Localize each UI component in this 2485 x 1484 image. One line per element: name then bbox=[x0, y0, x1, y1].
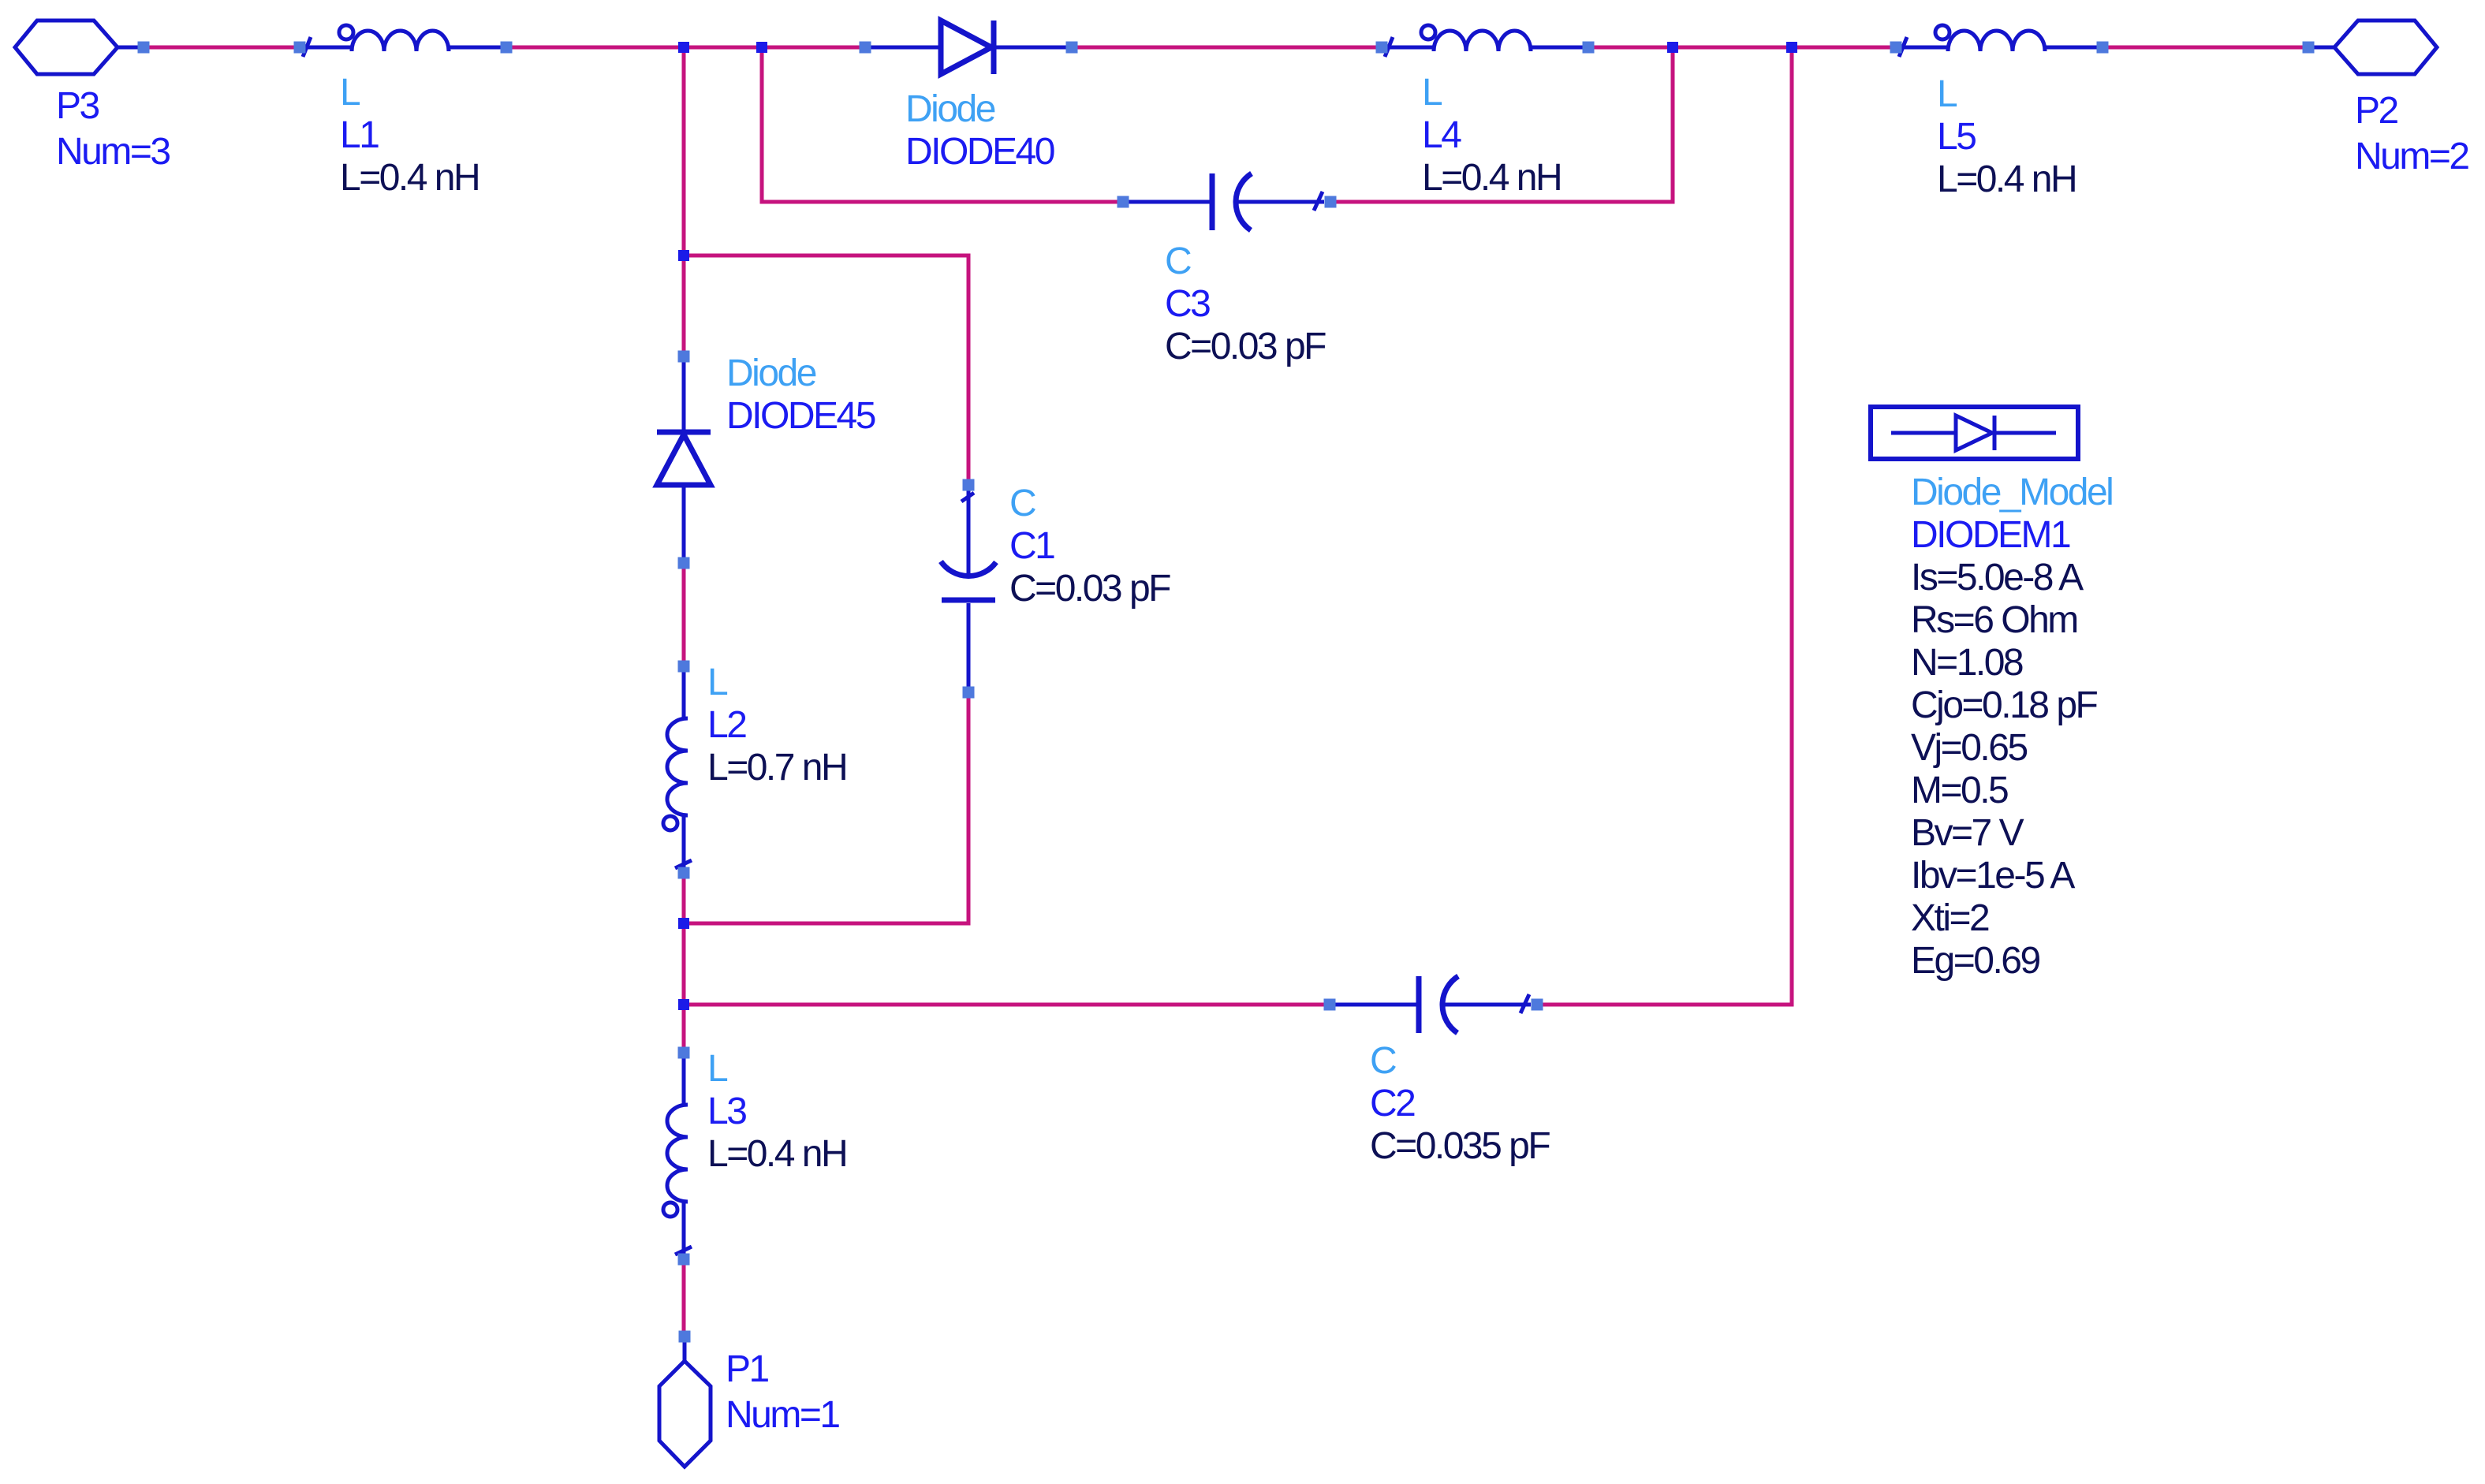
svg-text:C2: C2 bbox=[1370, 1083, 1415, 1124]
wire node F to node G bbox=[682, 928, 686, 1000]
wire from C2 right bbox=[1540, 52, 1792, 1005]
wire from C3 right bbox=[1335, 52, 1673, 202]
node D (junction) bbox=[1786, 42, 1797, 53]
diode model U: Diode_Model DIODEM1 bbox=[1871, 407, 2112, 982]
svg-text:Diode_Model: Diode_Model bbox=[1911, 472, 2112, 513]
node E (junction) bbox=[678, 250, 689, 261]
svg-text:C: C bbox=[1370, 1040, 1396, 1082]
svg-text:Diode: Diode bbox=[726, 352, 816, 394]
capacitor C2 bbox=[1324, 976, 1550, 1167]
wire bbox=[1076, 46, 1377, 50]
wire L2 to node F bbox=[682, 876, 686, 919]
svg-text:M=0.5: M=0.5 bbox=[1911, 770, 2008, 811]
svg-text:Diode: Diode bbox=[905, 88, 995, 130]
svg-text:Rs=6 Ohm: Rs=6 Ohm bbox=[1911, 599, 2077, 641]
wire DIODE45 to L2 bbox=[682, 569, 686, 661]
wire A to DIODE45 bbox=[682, 52, 686, 352]
diode DIODE40 bbox=[860, 21, 1078, 173]
port P3 bbox=[15, 21, 170, 173]
port P2 bbox=[2303, 21, 2469, 177]
svg-text:L2: L2 bbox=[707, 704, 746, 746]
node C (junction) bbox=[1667, 42, 1678, 53]
port P1 bbox=[659, 1331, 839, 1467]
wire node G to L3 bbox=[682, 1009, 686, 1048]
wire bbox=[512, 46, 679, 50]
svg-text:L3: L3 bbox=[707, 1091, 746, 1132]
svg-text:Num=3: Num=3 bbox=[56, 131, 170, 173]
svg-text:Num=2: Num=2 bbox=[2355, 136, 2468, 177]
wire bbox=[767, 46, 860, 50]
node B (junction) bbox=[756, 42, 767, 53]
node G (junction) bbox=[678, 999, 689, 1010]
inductor L5 bbox=[1890, 25, 2109, 200]
wire to C3 left bbox=[762, 52, 1118, 202]
svg-text:Num=1: Num=1 bbox=[726, 1394, 839, 1436]
svg-text:C=0.035 pF: C=0.035 pF bbox=[1370, 1125, 1550, 1167]
capacitor C3 bbox=[1118, 173, 1337, 367]
wire from C1 bottom bbox=[688, 697, 968, 923]
wire bbox=[688, 46, 757, 50]
svg-text:Cjo=0.18 pF: Cjo=0.18 pF bbox=[1911, 684, 2098, 726]
svg-text:C=0.03 pF: C=0.03 pF bbox=[1009, 568, 1170, 610]
svg-text:P1: P1 bbox=[726, 1348, 769, 1390]
svg-text:DIODEM1: DIODEM1 bbox=[1911, 514, 2070, 556]
svg-text:L=0.4 nH: L=0.4 nH bbox=[1937, 158, 2076, 200]
svg-text:Eg=0.69: Eg=0.69 bbox=[1911, 940, 2039, 982]
node A (junction) bbox=[678, 42, 689, 53]
svg-text:L1: L1 bbox=[340, 114, 379, 156]
svg-text:L=0.4 nH: L=0.4 nH bbox=[340, 157, 479, 199]
svg-text:Is=5.0e-8 A: Is=5.0e-8 A bbox=[1911, 557, 2084, 598]
svg-text:N=1.08: N=1.08 bbox=[1911, 642, 2023, 684]
svg-text:L=0.7 nH: L=0.7 nH bbox=[707, 747, 846, 789]
svg-text:C=0.03 pF: C=0.03 pF bbox=[1165, 326, 1326, 367]
svg-text:DIODE40: DIODE40 bbox=[905, 131, 1054, 173]
wire bbox=[1593, 46, 1668, 50]
svg-text:L5: L5 bbox=[1937, 116, 1976, 158]
svg-text:L=0.4 nH: L=0.4 nH bbox=[707, 1133, 846, 1175]
svg-text:P2: P2 bbox=[2355, 90, 2398, 132]
svg-text:Ibv=1e-5 A: Ibv=1e-5 A bbox=[1911, 855, 2075, 897]
svg-text:DIODE45: DIODE45 bbox=[726, 395, 875, 437]
wire bbox=[1677, 46, 1787, 50]
svg-text:L: L bbox=[1937, 73, 1957, 115]
svg-text:Bv=7 V: Bv=7 V bbox=[1911, 812, 2024, 854]
inductor L3 bbox=[663, 1047, 846, 1266]
svg-text:L4: L4 bbox=[1422, 114, 1461, 156]
wire bbox=[2107, 46, 2304, 50]
svg-text:C3: C3 bbox=[1165, 283, 1210, 325]
svg-text:C: C bbox=[1009, 483, 1035, 524]
svg-text:Xti=2: Xti=2 bbox=[1911, 897, 1989, 939]
wire node G to C2 bbox=[688, 1003, 1325, 1007]
inductor L1 bbox=[294, 25, 513, 199]
wire L3 to P1 bbox=[682, 1264, 686, 1332]
svg-text:C1: C1 bbox=[1009, 525, 1054, 567]
svg-text:L: L bbox=[707, 662, 728, 703]
svg-text:L: L bbox=[340, 72, 360, 114]
svg-text:L: L bbox=[707, 1048, 728, 1090]
svg-text:L=0.4 nH: L=0.4 nH bbox=[1422, 157, 1561, 199]
diode DIODE45 bbox=[657, 351, 875, 569]
svg-text:L: L bbox=[1422, 72, 1442, 114]
svg-text:C: C bbox=[1165, 240, 1191, 282]
svg-text:Vj=0.65: Vj=0.65 bbox=[1911, 727, 2027, 769]
node F (junction) bbox=[678, 918, 689, 929]
wire bbox=[1797, 46, 1891, 50]
wire bbox=[149, 46, 294, 50]
inductor L2 bbox=[663, 661, 846, 879]
inductor L4 bbox=[1376, 25, 1595, 199]
wire to C1 top bbox=[688, 255, 968, 480]
capacitor C1 bbox=[941, 479, 1170, 699]
svg-text:P3: P3 bbox=[56, 85, 99, 127]
